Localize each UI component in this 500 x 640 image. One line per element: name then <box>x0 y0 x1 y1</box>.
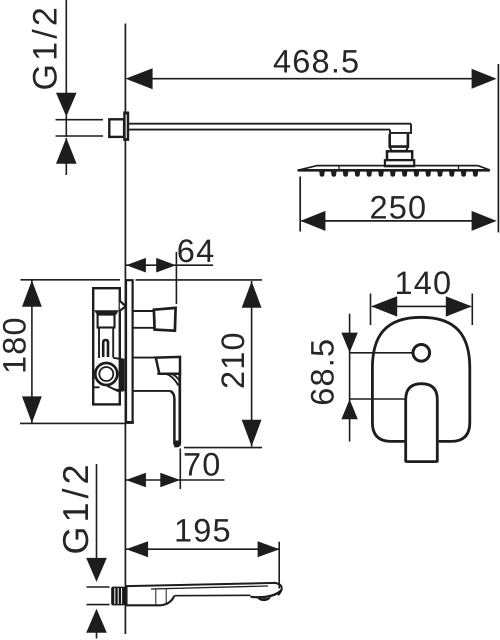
spout body <box>126 583 282 606</box>
trim plate hole <box>413 345 430 362</box>
svg-text:180: 180 <box>0 316 32 374</box>
svg-text:G1/2: G1/2 <box>27 4 65 91</box>
arrow left 195 <box>126 541 148 557</box>
mixer valve body (in-wall) <box>93 288 123 404</box>
extension lines top of mixer <box>20 280 262 448</box>
arrow left 64 <box>126 258 146 273</box>
shower arm wall escutcheon bar <box>123 112 129 141</box>
arrow down G1/2 bottom <box>86 558 107 582</box>
arrow down G1/2 top <box>56 93 77 117</box>
shower arm <box>129 124 411 133</box>
wall line <box>124 24 126 635</box>
arrow down 180 <box>22 396 42 423</box>
mixer tab to wall <box>120 301 126 311</box>
arrow right 70 <box>160 473 180 488</box>
lever neck curves <box>157 374 179 386</box>
svg-text:210: 210 <box>215 331 251 389</box>
svg-text:195: 195 <box>174 513 232 549</box>
shower head nozzles <box>319 171 478 177</box>
arrow right 64 <box>156 258 176 273</box>
arrow right 468.5 <box>472 69 497 89</box>
arrow up G1/2 bottom <box>86 609 107 633</box>
arrow up 210 <box>242 281 262 308</box>
shower arm flange square <box>109 119 124 137</box>
lever cap <box>156 357 180 374</box>
spout lip band <box>250 589 282 599</box>
arrow left 468.5 <box>126 68 153 89</box>
dimension G1/2 bottom <box>87 464 110 639</box>
svg-text:468.5: 468.5 <box>273 44 360 80</box>
dimension line G1/2 top <box>56 0 104 175</box>
arrow down 210 <box>242 420 262 447</box>
spout lip bottom curl <box>257 597 271 601</box>
arrow left 140 <box>371 296 397 316</box>
lever handle bar <box>170 391 174 445</box>
arrow down 68.5 <box>341 333 357 353</box>
diverter knob stem <box>133 311 154 328</box>
trim plate front view <box>372 317 469 441</box>
svg-text:G1/2: G1/2 <box>55 460 96 554</box>
lever stem <box>133 358 170 391</box>
arrow left 70 <box>126 473 146 488</box>
mixer cartridge circle <box>95 363 117 385</box>
shower head connector stack <box>385 134 414 166</box>
svg-text:70: 70 <box>183 447 222 483</box>
arrow up 68.5 <box>341 399 357 419</box>
mixer wall plate <box>126 280 133 423</box>
diverter knob <box>154 308 176 331</box>
arrow up 180 <box>22 280 42 307</box>
shower head plate <box>298 166 490 171</box>
arrow up G1/2 top <box>56 138 77 164</box>
svg-text:140: 140 <box>395 265 453 301</box>
arrow right 195 <box>258 541 280 557</box>
handle front view <box>406 384 438 462</box>
spout threaded connector <box>111 587 125 606</box>
arrow right 140 <box>446 296 472 316</box>
svg-text:64: 64 <box>177 233 216 269</box>
arrow right 250 <box>472 211 497 231</box>
svg-text:68.5: 68.5 <box>305 338 341 406</box>
arrow left 250 <box>300 211 325 231</box>
